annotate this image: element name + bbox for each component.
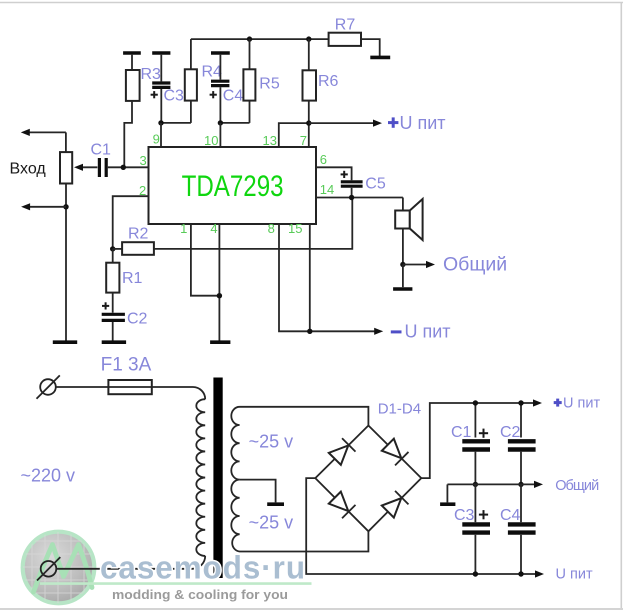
arrowhead Obshchiy psu [534, 481, 543, 488]
svg-text:~25 v: ~25 v [249, 432, 294, 452]
wire potentiometer bottom to ground [65, 184, 67, 341]
wire pin 1 [191, 224, 220, 296]
svg-text:U пит: U пит [556, 567, 593, 583]
wire C3 psu to U pit rail [474, 535, 476, 574]
wire pin 14 output [316, 197, 403, 199]
ground under potentiometer [53, 340, 77, 344]
svg-text:9: 9 [153, 131, 160, 146]
power bar above R3 [123, 51, 141, 55]
speaker LS1 [395, 199, 422, 240]
wire Obshchiy psu to ground [446, 484, 448, 502]
plus sign C2 [102, 302, 109, 309]
mains terminal top [37, 375, 60, 398]
wire pin 9 [160, 123, 162, 147]
wire rail to R6 [308, 39, 310, 70]
diode bridge diamond [315, 426, 421, 532]
node junction input [121, 165, 126, 170]
wiper arrow wire [81, 166, 97, 168]
wire pin10 node to R5 [220, 122, 249, 124]
node junction pin2/R2/R1 [110, 246, 115, 251]
wire C4 psu to U pit rail [520, 535, 522, 574]
svg-text:Общий: Общий [555, 478, 599, 494]
arrowhead +U psu [533, 399, 542, 406]
capacitor C5 [341, 182, 363, 186]
svg-text:R3: R3 [141, 66, 162, 83]
resistor R7 [329, 33, 361, 46]
diode D2 [381, 438, 408, 465]
arrowhead Obshchiy [426, 261, 435, 268]
svg-text:C4: C4 [223, 88, 244, 105]
ground under speaker [393, 287, 412, 291]
node junction +U/C2 [518, 400, 523, 405]
resistor R5 [243, 69, 255, 100]
svg-text:R2: R2 [128, 225, 149, 242]
svg-text:14: 14 [320, 182, 334, 197]
node junction +U/C1 [473, 400, 478, 405]
node junction pin9 [158, 120, 163, 125]
plus sign C3 [151, 91, 158, 98]
op-amp IC U1 box [149, 147, 317, 224]
transformer T1 secondary lower winding [231, 480, 368, 552]
svg-text:F1 3A: F1 3A [101, 355, 152, 376]
wire R1 top [112, 249, 114, 263]
wire pin9 node to R4 [161, 122, 191, 124]
resistor R2 [122, 242, 154, 255]
wire +U arrow [309, 122, 375, 124]
wire R4 bottom [190, 101, 192, 123]
wire Obshchiy arrow [403, 264, 429, 266]
svg-text:C5: C5 [365, 176, 386, 193]
svg-text:modding & cooling for you: modding & cooling for you [112, 587, 288, 602]
svg-text:~220 v: ~220 v [21, 466, 76, 486]
svg-text:U пит: U пит [563, 396, 600, 412]
ground under C2 [102, 340, 126, 344]
node junction pot bottom [63, 204, 68, 209]
node junction Obshchiy/C2 [518, 482, 523, 487]
power bar above C3 [152, 51, 170, 55]
Obshchiy psu wire [447, 483, 536, 485]
ground center tap [267, 502, 284, 506]
node junction speaker/ground [400, 262, 405, 267]
watermark logo letter M [34, 545, 93, 593]
plus sign C3 psu [479, 510, 488, 519]
wire R5 bottom [249, 101, 251, 123]
wire bar to C3 [160, 55, 162, 82]
svg-text:6: 6 [320, 152, 327, 167]
svg-text:~25 v: ~25 v [249, 513, 294, 533]
svg-text:3: 3 [139, 153, 146, 168]
wire C4 psu top [520, 484, 522, 522]
input arrow bottom [27, 206, 66, 208]
wire speaker node to ground [402, 265, 404, 288]
wire R1 to C2 [112, 293, 114, 313]
wire pin 4 to ground [218, 224, 220, 341]
plus sign of +U pit [388, 117, 398, 127]
ground under R7 [370, 56, 390, 60]
node junction pin1/pin4 [217, 293, 222, 298]
wire filter column left upper [474, 403, 476, 438]
transformer T1 secondary upper winding [231, 407, 368, 480]
wire C1 to pin 3 [108, 166, 149, 168]
wire mains to fuse to transformer [56, 387, 205, 399]
svg-text:R4: R4 [202, 64, 223, 81]
svg-text:13: 13 [263, 133, 277, 148]
svg-text:R1: R1 [122, 270, 143, 287]
wire arrow to potentiometer [65, 132, 67, 152]
arrowhead input top [21, 129, 30, 136]
input arrow top [27, 131, 66, 133]
wire pin 7 [308, 123, 310, 147]
wire C1 to Obshchiy line [474, 452, 476, 485]
svg-text:R5: R5 [259, 76, 280, 93]
svg-text:U пит: U пит [405, 322, 451, 342]
resistor R3 [126, 70, 140, 101]
wire pin 13 [279, 123, 309, 147]
resistor R6 [303, 70, 317, 100]
svg-text:C4: C4 [500, 507, 521, 524]
diode D3 [328, 491, 355, 518]
node junction output [349, 195, 354, 200]
svg-text:C1: C1 [451, 424, 472, 441]
svg-text:1: 1 [180, 221, 187, 236]
svg-text:7: 7 [300, 133, 307, 148]
page border top [0, 2, 623, 4]
watermark logo circle [23, 532, 95, 604]
arrowhead -U [374, 328, 383, 335]
wire filter column right upper [520, 403, 522, 438]
wire bridge plus to +U rail [421, 403, 535, 478]
node junction rail/R5 [247, 36, 252, 41]
diode D4 [381, 491, 408, 518]
transformer T1 core [213, 378, 222, 579]
wire C2 to ground [112, 322, 114, 341]
top supply rail wire [191, 38, 329, 40]
wire pin 8 to -U [279, 224, 377, 331]
plus sign C1 psu [479, 429, 488, 438]
svg-text:C2: C2 [500, 424, 521, 441]
capacitor C3 psu [462, 524, 490, 532]
capacitor C2 psu [508, 441, 536, 449]
capacitor C1 psu [462, 441, 490, 449]
wire pin 15 [309, 224, 311, 331]
ground under pin 4 [210, 340, 230, 344]
wire bridge minus to U pit rail [306, 478, 537, 574]
wire pin 2 [113, 196, 149, 249]
node junction +U [306, 120, 311, 125]
arrowhead input bottom [21, 203, 30, 210]
wire bar to C4 [219, 55, 221, 80]
wire node to R2 [113, 248, 122, 250]
wire C2 to Obshchiy line [520, 452, 522, 485]
node junction pin10 [218, 120, 223, 125]
svg-text:U пит: U пит [400, 113, 446, 133]
watermark green underline [40, 582, 312, 585]
svg-text:C3: C3 [454, 507, 475, 524]
wire R6 to +U node [308, 101, 310, 124]
wire C4 to pin 10 node [219, 87, 221, 123]
svg-text:C2: C2 [127, 311, 148, 328]
node junction rail/R6 [306, 36, 311, 41]
potentiometer R volume [60, 152, 72, 183]
mains terminal bottom [37, 557, 60, 580]
resistor R4 [185, 69, 197, 100]
diode D1 [328, 438, 355, 465]
wire rail to R5 [249, 39, 251, 69]
svg-text:Общий: Общий [443, 254, 507, 276]
wire output down through speaker [402, 198, 404, 265]
svg-text:Вход: Вход [10, 161, 47, 178]
wire pin 6 to C5 [316, 167, 352, 180]
wire R2 to output node [154, 198, 352, 249]
svg-text:4: 4 [210, 221, 217, 236]
svg-text:15: 15 [288, 221, 302, 236]
resistor R1 [106, 263, 119, 293]
minus sign of -U pit [391, 330, 402, 333]
node junction pin15/-U [307, 329, 312, 334]
wire bar to R3 [131, 55, 133, 70]
wire C3 to pin 9 node [160, 89, 162, 123]
transformer T1 primary winding [196, 399, 205, 556]
capacitor C3 [152, 83, 170, 87]
svg-text:R6: R6 [318, 73, 339, 90]
svg-text:TDA7293: TDA7293 [182, 170, 284, 203]
wire R7 right to ground [361, 39, 380, 56]
fuse F1 [108, 380, 151, 394]
svg-text:C1: C1 [91, 142, 112, 159]
wire C5 bottom [351, 188, 353, 198]
svg-text:R7: R7 [335, 17, 356, 34]
wire pin 10 [219, 123, 221, 147]
node junction U pit/C3 [473, 571, 478, 576]
node junction Obshchiy/C1 [473, 482, 478, 487]
plus sign of +U pit psu [554, 399, 562, 407]
capacitor C2 [102, 314, 125, 320]
arrowhead +U [373, 120, 382, 127]
plus sign C4 [210, 91, 217, 98]
ground Obshchiy psu [440, 502, 455, 506]
svg-text:10: 10 [204, 133, 218, 148]
svg-text:C3: C3 [164, 88, 185, 105]
arrowhead wiper [74, 164, 83, 171]
wire primary bottom to mains terminal [56, 556, 205, 569]
wire R3 bottom jog to input node [124, 101, 132, 167]
power bar above C4 [211, 51, 230, 55]
capacitor C4 psu [508, 524, 536, 532]
capacitor C4 [211, 81, 229, 85]
center tap wire to ground [240, 480, 276, 503]
wire C3 psu top [474, 484, 476, 522]
page border bottom [0, 608, 623, 610]
plus sign C5 [341, 171, 348, 178]
svg-text:D1-D4: D1-D4 [378, 401, 421, 418]
arrowhead U pit psu [535, 570, 544, 577]
page border right [620, 3, 622, 610]
capacitor C1 [99, 158, 106, 177]
wire rail to R4 [190, 39, 192, 69]
svg-text:8: 8 [268, 221, 275, 236]
svg-text:casemods·ru: casemods·ru [100, 550, 306, 586]
node junction U pit/C4 [518, 571, 523, 576]
